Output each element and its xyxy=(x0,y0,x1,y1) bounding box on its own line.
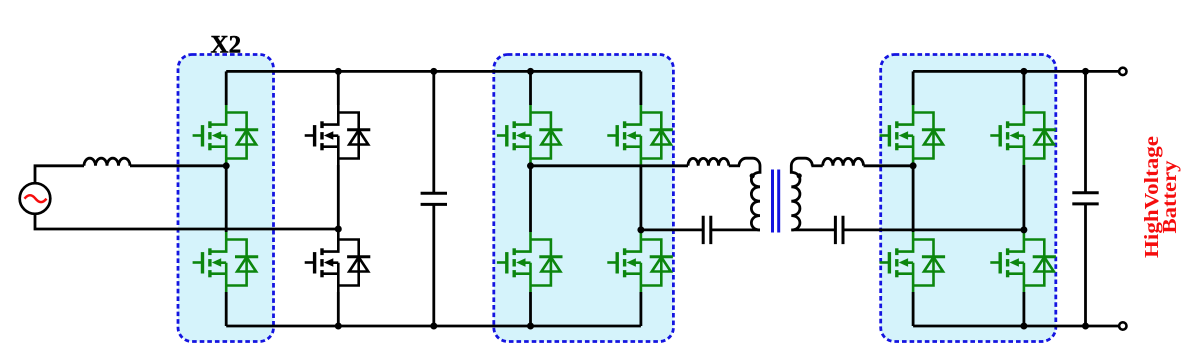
node B1 junction xyxy=(335,226,342,233)
wire bridge1 right leg drain xyxy=(640,71,643,105)
capacitor Cr2 xyxy=(835,216,843,244)
node A1 junction xyxy=(223,162,230,169)
wire bridge1 left leg source xyxy=(529,292,532,326)
transistor Q3 (line-frequency top) xyxy=(305,105,371,165)
terminal negative xyxy=(1119,322,1126,329)
wire bridge1 left leg drain xyxy=(529,71,532,105)
label HighVoltage Battery xyxy=(1141,136,1181,258)
full-bridge primary highlight box xyxy=(494,55,674,342)
primary polarity dot xyxy=(750,173,755,178)
junction C2 top rail xyxy=(1082,68,1089,75)
bottom dc rail xyxy=(226,325,641,328)
wire bridge2 left leg drain xyxy=(912,71,915,105)
terminal positive xyxy=(1119,68,1126,75)
wire Lr1 to primary winding xyxy=(729,164,740,167)
wire line leg upper drain xyxy=(337,71,340,105)
wire gan leg midpoint xyxy=(225,165,228,232)
wire bridge2 right leg midpoint xyxy=(1023,165,1026,232)
transistor Q5 (primary bridge top-left) xyxy=(497,105,563,165)
transistor Q8 (primary bridge bottom-right) xyxy=(607,232,673,292)
wire ac bottom to node B1 xyxy=(35,214,338,229)
wire Cr2 to node B3 xyxy=(843,228,1024,231)
transistor Q9 (secondary bridge top-left) xyxy=(880,105,946,165)
wire bridge1 left leg midpoint xyxy=(529,165,532,232)
junction bridge2 right top rail xyxy=(1020,68,1027,75)
wire gan leg lower source xyxy=(225,292,228,326)
wire secondary winding bottom to Cr2 xyxy=(791,228,835,231)
wire bridge2 right leg source xyxy=(1023,292,1026,326)
svg-text:X2: X2 xyxy=(211,31,242,58)
junction C1 top rail xyxy=(430,68,437,75)
secondary top rail xyxy=(913,70,1119,73)
ac source V1 xyxy=(20,183,51,214)
capacitor C2 (output filter) xyxy=(1072,71,1098,326)
wire inductor to node A1 xyxy=(130,164,226,167)
wire gan leg upper drain xyxy=(225,71,228,105)
wire bridge2 left leg source xyxy=(912,292,915,326)
secondary bottom rail xyxy=(913,325,1119,328)
wire bridge1 output to resonant inductor xyxy=(531,164,689,167)
full-bridge secondary highlight box xyxy=(881,55,1056,342)
inductor Lr1 xyxy=(688,158,729,165)
wire Lr2 to node A3 xyxy=(864,164,914,167)
transistor Q7 (primary bridge top-right) xyxy=(607,105,673,165)
junction bridge2 right bottom rail xyxy=(1020,323,1027,330)
junction bridge1 left bottom rail xyxy=(527,323,534,330)
junction bridge1 left top rail xyxy=(527,68,534,75)
wire secondary winding to inductor Lr2 xyxy=(811,164,822,167)
transistor Q10 (secondary bridge bottom-left) xyxy=(880,232,946,292)
top dc rail xyxy=(226,70,641,73)
svg-text:Battery: Battery xyxy=(1159,161,1181,234)
wire bridge1 right leg source xyxy=(640,292,643,326)
node A2 junction xyxy=(527,162,534,169)
wire ac top to inductor xyxy=(35,166,84,183)
secondary polarity dot xyxy=(797,173,802,178)
GaN leg highlight box X2 xyxy=(178,55,274,342)
wire bridge1 right leg midpoint xyxy=(640,165,643,232)
transformer core xyxy=(773,170,779,233)
node B2 junction xyxy=(637,226,644,233)
junction line leg bottom rail xyxy=(335,323,342,330)
wire bridge2 right leg drain xyxy=(1023,71,1026,105)
junction line leg top rail xyxy=(335,68,342,75)
transistor Q6 (primary bridge bottom-left) xyxy=(497,232,563,292)
wire line leg lower source xyxy=(337,292,340,326)
transistor Q4 (line-frequency bottom) xyxy=(305,232,371,292)
wire bridge2 left leg midpoint xyxy=(912,165,915,232)
transistor Q12 (secondary bridge bottom-right) xyxy=(990,232,1056,292)
transistor Q1 (GaN top, box X2) xyxy=(193,105,259,165)
wire Cr1 to primary winding bottom xyxy=(711,228,760,231)
transformer primary winding xyxy=(739,158,760,230)
capacitor C1 (dc link) xyxy=(421,71,447,326)
wire line leg midpoint xyxy=(337,165,340,232)
transistor Q11 (secondary bridge top-right) xyxy=(990,105,1056,165)
inductor L1 xyxy=(84,158,130,166)
inductor Lr2 xyxy=(823,158,864,165)
junction C2 bottom rail xyxy=(1082,323,1089,330)
wire bridge1 return to resonant cap xyxy=(641,228,703,231)
transistor Q2 (GaN bottom, box X2) xyxy=(193,232,259,292)
node B3 junction xyxy=(1020,226,1027,233)
transformer secondary winding xyxy=(791,158,812,230)
capacitor Cr1 xyxy=(703,216,711,244)
junction C1 bottom rail xyxy=(430,323,437,330)
node A3 junction xyxy=(910,162,917,169)
